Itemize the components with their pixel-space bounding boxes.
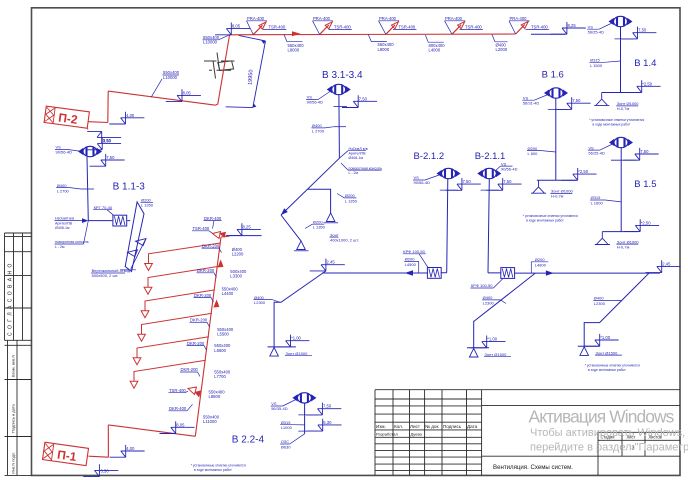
svg-text:Ø400: Ø400 xyxy=(594,296,605,301)
svg-text:В 1.6: В 1.6 xyxy=(542,70,564,81)
marker 8,05 main line xyxy=(215,23,250,35)
svg-text:Ø408-1м: Ø408-1м xyxy=(349,156,364,160)
label Ø400 L2300 (left) xyxy=(254,295,266,305)
svg-text:Ø315: Ø315 xyxy=(281,420,292,425)
marker 4,00 П-1 xyxy=(110,445,145,457)
svg-text:В 1.4: В 1.4 xyxy=(634,58,656,69)
note center xyxy=(523,214,578,223)
svg-text:L2300: L2300 xyxy=(254,300,266,305)
svg-text:Зонт Ø1500: Зонт Ø1500 xyxy=(596,350,619,355)
fan В-2.1.2 xyxy=(437,168,460,178)
wire: right chain xyxy=(584,273,649,346)
label 550x400 L10000 on П-2 run xyxy=(163,70,180,80)
svg-text:7,50: 7,50 xyxy=(323,404,332,409)
title block texts xyxy=(376,424,478,429)
label Ø200 L1350 xyxy=(141,198,154,208)
PRA branch 4 xyxy=(452,25,461,34)
svg-text:7,50: 7,50 xyxy=(106,155,115,160)
valve TSR-400 at П-1 riser bottom xyxy=(188,387,197,395)
svg-text:PRA-400: PRA-400 xyxy=(313,16,331,21)
wire П-2 horizontal run xyxy=(108,91,215,105)
hood branch 2 xyxy=(297,241,306,250)
svg-text:Ø315: Ø315 xyxy=(591,195,602,200)
svg-text:*1,00: *1,00 xyxy=(291,336,301,341)
svg-text:L4800: L4800 xyxy=(535,262,547,267)
svg-text:500x500, 2 шт.: 500x500, 2 шт. xyxy=(92,273,119,278)
fan В1.6 xyxy=(545,88,568,98)
wire П-1 outlet xyxy=(89,456,109,457)
svg-text:*1,00: *1,00 xyxy=(600,335,610,340)
svg-text:8,05: 8,05 xyxy=(232,24,241,29)
svg-text:Ø200: Ø200 xyxy=(528,146,539,151)
svg-text:Ø200: Ø200 xyxy=(405,257,416,262)
svg-text:L4400: L4400 xyxy=(222,291,234,296)
black break symbol on П-2 riser xyxy=(204,53,235,79)
duct size labels under main line xyxy=(203,35,508,52)
svg-text:56/25-4D: 56/25-4D xyxy=(588,150,605,155)
svg-text:TSR-400: TSR-400 xyxy=(169,388,186,393)
wire main supply line xyxy=(230,33,516,36)
svg-text:* установочные отметки уточняю: * установочные отметки уточняются xyxy=(191,464,246,468)
title block xyxy=(375,390,680,476)
fan В2.2-4 xyxy=(293,393,316,403)
label VS 90/56-4D xyxy=(56,145,73,155)
svg-text:Ø400: Ø400 xyxy=(57,183,68,188)
svg-text:НзОовЛ в/в: НзОовЛ в/в xyxy=(55,217,74,221)
svg-text:Инв.N подл.: Инв.N подл. xyxy=(11,452,16,474)
svg-text:Дата: Дата xyxy=(467,424,478,429)
svg-text:Ø400: Ø400 xyxy=(254,295,265,300)
svg-text:90/56-4D: 90/56-4D xyxy=(56,150,73,155)
wire: middle chain xyxy=(474,273,660,348)
svg-text:L 1600: L 1600 xyxy=(591,201,604,206)
hood зонт Ø1000 (В1.6) xyxy=(531,180,546,193)
svg-text:в ходе монтажных работ: в ходе монтажных работ xyxy=(588,368,626,372)
svg-text:Ø200: Ø200 xyxy=(313,219,324,224)
svg-text:L8000: L8000 xyxy=(378,47,390,52)
svg-text:L4000: L4000 xyxy=(429,47,441,52)
svg-text:Ø408-1м: Ø408-1м xyxy=(55,226,70,230)
frame: left column rotated texts xyxy=(8,263,14,336)
riser В1.1-3 xyxy=(87,157,88,221)
vertical duct (trapezoid) xyxy=(125,202,144,272)
svg-text:4,00: 4,00 xyxy=(126,113,135,118)
svg-text:3,50: 3,50 xyxy=(103,138,112,143)
label PRA-400 x5 xyxy=(247,16,527,21)
label Ø400 L2300 (middle) xyxy=(483,295,495,305)
svg-text:L 1350: L 1350 xyxy=(313,225,326,230)
fan В-2.1.1 xyxy=(478,168,501,178)
marker 3,50 П-1 xyxy=(83,464,118,476)
svg-text:КРГ 70-40: КРГ 70-40 xyxy=(94,205,113,210)
hood зонт Ø1000 (В1.5) xyxy=(595,232,610,245)
hood зонт Ø1500 (middle) xyxy=(469,348,478,357)
bottom В1.5 xyxy=(602,231,638,233)
svg-text:TSR-400: TSR-400 xyxy=(193,226,210,231)
svg-text:PRA-400: PRA-400 xyxy=(247,16,265,21)
svg-text:*1,00: *1,00 xyxy=(487,337,497,342)
svg-text:Вентиляция. Схемы систем.: Вентиляция. Схемы систем. xyxy=(493,464,573,471)
svg-text:DKR-200: DKR-200 xyxy=(202,243,220,248)
label Ø400 L2700 xyxy=(57,183,70,194)
svg-text:L8000: L8000 xyxy=(288,47,300,52)
label Ø400 L2300 (right) xyxy=(594,296,606,306)
svg-text:* установочные отметки уточняю: * установочные отметки уточняются xyxy=(585,363,640,367)
grille arrows xyxy=(128,239,147,269)
svg-text:L7700: L7700 xyxy=(214,374,226,379)
marker 8,25 П-1 top xyxy=(229,235,261,237)
note П-1 xyxy=(191,464,246,473)
svg-text:Дуева: Дуева xyxy=(411,432,423,437)
П-1 riser flow arrow 2 xyxy=(213,300,219,308)
svg-text:DKR-200: DKR-200 xyxy=(197,268,215,273)
fan В1.1-3 xyxy=(79,146,102,156)
svg-text:В 3.1-3.4: В 3.1-3.4 xyxy=(322,70,363,81)
svg-text:L 1350: L 1350 xyxy=(345,198,358,203)
svg-text:L 2700: L 2700 xyxy=(57,189,70,194)
fan В3.1-3.4 xyxy=(327,84,350,94)
svg-text:L - 2м: L - 2м xyxy=(55,245,65,249)
svg-text:90/56-4D: 90/56-4D xyxy=(501,166,518,171)
wire П-1 riser up xyxy=(107,425,109,457)
hood зонт Ø1000 (В1.4) xyxy=(594,93,609,106)
svg-text:НзОовЛ в/в: НзОовЛ в/в xyxy=(349,147,368,151)
svg-text:Изм.: Изм. xyxy=(376,424,386,429)
svg-text:В 1.5: В 1.5 xyxy=(634,179,656,190)
svg-text:в ходе монтажных работ: в ходе монтажных работ xyxy=(194,468,232,472)
svg-text:П-2: П-2 xyxy=(57,110,78,126)
svg-text:7,50: 7,50 xyxy=(463,179,472,184)
marker 8,05 П-1 run xyxy=(160,421,195,433)
svg-text:Чтобы активировать Windows,: Чтобы активировать Windows, xyxy=(530,427,685,439)
flow arrow right xyxy=(546,270,554,275)
label Ø200 L1350 (1) xyxy=(345,193,358,203)
leaders / underlines for PRA & TSR labels xyxy=(247,21,268,35)
bottom В1.6 xyxy=(537,179,576,181)
DKR-200 labels on П-1 riser xyxy=(181,243,220,372)
svg-text:2,45: 2,45 xyxy=(662,261,671,266)
svg-text:L8800: L8800 xyxy=(209,394,221,399)
marker 3,50 П-2 xyxy=(87,131,121,143)
svg-text:L1000: L1000 xyxy=(281,425,293,430)
svg-text:в ходе монтажных работ: в ходе монтажных работ xyxy=(526,219,564,223)
label Ø200 L4500 xyxy=(405,257,417,267)
svg-text:400x1000, 2 шт.: 400x1000, 2 шт. xyxy=(330,238,359,243)
wire П-2 outlet xyxy=(88,122,108,130)
svg-text:АрителПВ: АрителПВ xyxy=(349,152,367,156)
marker 3,50 xyxy=(86,138,121,150)
marker 4,00 П-2 xyxy=(109,112,144,124)
svg-text:TSR-400: TSR-400 xyxy=(399,25,416,30)
svg-text:DKR-200: DKR-200 xyxy=(194,293,212,298)
AHU П-2 box xyxy=(44,106,89,128)
svg-text:L 1350: L 1350 xyxy=(141,202,154,207)
svg-text:В 1.1-3: В 1.1-3 xyxy=(113,182,146,193)
riser В1.6 xyxy=(555,98,557,180)
PRA branch 5 xyxy=(516,25,525,34)
svg-text:КРФ 100-50: КРФ 100-50 xyxy=(403,249,425,254)
svg-text:DKR-200: DKR-200 xyxy=(190,318,208,323)
svg-text:90/56-4D: 90/56-4D xyxy=(307,100,324,105)
damper КРФ 100-50 (2) xyxy=(501,268,515,279)
riser В3.1-3.4 xyxy=(338,95,341,158)
label Ø200 L1350 (2) xyxy=(313,219,326,229)
svg-text:PRA-400: PRA-400 xyxy=(379,16,397,21)
wire П-1 horizontal run xyxy=(108,425,195,436)
damper КРФ 100-50 (1) xyxy=(427,268,441,279)
marker 8,05 П-2 run xyxy=(166,89,201,101)
svg-text:2,45: 2,45 xyxy=(327,260,336,265)
svg-text:Взам. инв.N: Взам. инв.N xyxy=(11,355,16,377)
svg-text:7,50: 7,50 xyxy=(572,98,581,103)
riser В-2.1.1 xyxy=(488,179,489,273)
svg-text:Н-0,7м: Н-0,7м xyxy=(551,194,564,199)
svg-text:Н-0,7м: Н-0,7м xyxy=(617,244,630,249)
DKR-400 / TSR-400 labels at П-1 top xyxy=(193,216,222,231)
label 550x400 L11000 on П-1 run xyxy=(203,414,220,424)
svg-text:С О Г Л А С О В А Н О: С О Г Л А С О В А Н О xyxy=(8,263,14,336)
svg-text:TSR-400: TSR-400 xyxy=(531,25,548,30)
label поворотная консоль xyxy=(55,240,89,249)
svg-text:L3300: L3300 xyxy=(230,273,242,278)
svg-text:8,05: 8,05 xyxy=(183,90,192,95)
svg-text:* установочные отметки уточняю: * установочные отметки уточняются xyxy=(523,214,578,218)
svg-text:L - 2м: L - 2м xyxy=(349,171,359,175)
svg-text:Лист: Лист xyxy=(410,424,421,429)
svg-text:КРФ 100-50: КРФ 100-50 xyxy=(471,283,493,288)
svg-text:56/25-4D: 56/25-4D xyxy=(588,29,605,34)
riser В-2.1.2 xyxy=(447,179,448,273)
svg-text:L 600: L 600 xyxy=(528,151,539,156)
svg-text:TSR-400: TSR-400 xyxy=(465,25,482,30)
svg-text:Ø200: Ø200 xyxy=(535,257,546,262)
svg-text:8,05: 8,05 xyxy=(176,422,185,427)
dimension 19950 (blue) xyxy=(226,35,266,107)
svg-text:L2000: L2000 xyxy=(496,47,508,52)
label ОЗС Ø630 xyxy=(281,439,292,449)
svg-text:DKR-200: DKR-200 xyxy=(187,341,205,346)
svg-text:Разработал: Разработал xyxy=(376,432,398,437)
bottom В1.4 xyxy=(602,92,640,94)
svg-text:TSR-400: TSR-400 xyxy=(334,25,351,30)
DKR-400 / TSR-400 labels at П-1 bottom xyxy=(169,388,187,411)
watermark: Активация Windows xyxy=(529,407,688,454)
svg-text:В 2.2-4: В 2.2-4 xyxy=(232,435,265,446)
svg-text:L 2700: L 2700 xyxy=(312,128,325,133)
svg-text:L2200: L2200 xyxy=(232,252,244,257)
svg-text:L4500: L4500 xyxy=(405,262,417,267)
svg-text:* установочные отметки уточняю: * установочные отметки уточняются xyxy=(589,118,644,122)
svg-text:19950: 19950 xyxy=(248,69,255,85)
hood branch 1 xyxy=(308,189,331,213)
svg-text:Зонт Ø1500: Зонт Ø1500 xyxy=(286,351,309,356)
wire П-2 riser up xyxy=(107,91,109,122)
svg-text:L2300: L2300 xyxy=(594,301,606,306)
svg-text:В-2.1.1: В-2.1.1 xyxy=(475,151,506,162)
svg-text:Ø400: Ø400 xyxy=(483,295,494,300)
svg-text:поворотная консоль: поворотная консоль xyxy=(349,166,383,170)
duct to damper xyxy=(88,220,130,222)
label воздуховод АрителПВ (В3) xyxy=(349,147,368,160)
svg-text:L 1500: L 1500 xyxy=(590,63,603,68)
fan В1.5 xyxy=(610,137,633,147)
svg-text:П-1: П-1 xyxy=(56,447,77,464)
svg-text:PRA-400: PRA-400 xyxy=(510,16,528,21)
svg-text:DKR-200: DKR-200 xyxy=(181,367,199,372)
valve TSR-400 at П-1 riser top xyxy=(213,232,230,239)
П-1 riser flow arrow 1 xyxy=(218,260,224,268)
svg-text:L6600: L6600 xyxy=(214,348,226,353)
svg-text:№ док: № док xyxy=(425,424,439,429)
svg-text:3,50: 3,50 xyxy=(101,468,110,473)
hood зонт Ø1500 (right) xyxy=(580,347,589,356)
П-1 riser size labels xyxy=(209,247,248,399)
svg-text:7,50: 7,50 xyxy=(638,28,647,33)
svg-text:Ø315: Ø315 xyxy=(590,58,601,63)
svg-text:7,50: 7,50 xyxy=(359,96,368,101)
note xyxy=(589,118,644,127)
svg-text:DKR-400: DKR-400 xyxy=(169,406,187,411)
svg-text:*2,50: *2,50 xyxy=(642,81,652,86)
svg-text:Подпись: Подпись xyxy=(443,424,462,429)
svg-text:4,00: 4,00 xyxy=(126,446,135,451)
PRA branch 3 xyxy=(386,25,395,34)
marker 2,45 (left) xyxy=(310,259,345,271)
riser В1.5 xyxy=(620,148,622,232)
hood зонт Ø1500 (left) xyxy=(270,348,279,357)
svg-text:в ходе монтажных работ: в ходе монтажных работ xyxy=(593,123,631,127)
svg-text:Кол.: Кол. xyxy=(394,424,403,429)
svg-text:*2,50: *2,50 xyxy=(578,169,588,174)
AHU П-1 box xyxy=(43,237,221,466)
svg-text:L10000: L10000 xyxy=(203,40,218,45)
diagonal to hoods xyxy=(281,158,339,241)
svg-text:8,25: 8,25 xyxy=(243,224,252,229)
П-1 riser branches with down arrows xyxy=(130,243,220,388)
wire П-1 main riser xyxy=(195,237,221,436)
svg-text:56/35-4D: 56/35-4D xyxy=(271,406,288,411)
svg-text:Ø400: Ø400 xyxy=(312,123,323,128)
svg-text:Активация Windows: Активация Windows xyxy=(529,407,675,427)
svg-text:90/56-4D: 90/56-4D xyxy=(414,180,431,185)
damper КРГ 70-40 xyxy=(113,215,127,226)
svg-text:8,25: 8,25 xyxy=(568,23,577,28)
flow arrow left xyxy=(405,270,413,275)
svg-text:PRA-400: PRA-400 xyxy=(445,16,463,21)
svg-text:АрителПВ: АрителПВ xyxy=(55,221,73,225)
svg-text:L2300: L2300 xyxy=(483,300,495,305)
svg-text:TSR-400: TSR-400 xyxy=(269,25,286,30)
svg-text:перейдите в раздел "Параметр: перейдите в раздел "Параметр xyxy=(530,442,688,454)
svg-text:Н-0,7м: Н-0,7м xyxy=(617,106,630,111)
wire П-2 main riser to top xyxy=(216,35,230,105)
svg-text:7,50: 7,50 xyxy=(503,179,512,184)
riser В1.4 xyxy=(620,27,622,93)
frame: left attachment column xyxy=(5,233,32,475)
label TSR-400 x5 xyxy=(269,25,549,30)
svg-text:Ø630: Ø630 xyxy=(281,444,292,449)
svg-text:Подпись и дата: Подпись и дата xyxy=(11,403,16,433)
marker 7,50 xyxy=(90,154,125,166)
svg-text:L5500: L5500 xyxy=(217,332,229,337)
flow arrow on main line xyxy=(292,31,301,36)
PRA branch 2 xyxy=(320,25,329,34)
label воздуховод АрителПВ xyxy=(55,217,74,230)
label поворотная консоль (В3) xyxy=(349,166,383,175)
svg-text:56/31-4D: 56/31-4D xyxy=(523,100,540,105)
label Вертикальный отвод xyxy=(92,268,131,278)
label Зонт 400x1000 xyxy=(330,232,359,242)
svg-text:Ø200: Ø200 xyxy=(345,193,356,198)
marker 8,25 end of main line xyxy=(531,33,565,35)
svg-text:L10000: L10000 xyxy=(163,75,178,80)
svg-text:Зонт Ø1500: Зонт Ø1500 xyxy=(485,352,508,357)
svg-text:В-2.1.2: В-2.1.2 xyxy=(414,151,445,162)
marker 2,45 (right) xyxy=(646,260,681,272)
riser В2.2-4 xyxy=(304,403,306,434)
svg-text:*2,50: *2,50 xyxy=(641,220,651,225)
svg-text:6,30: 6,30 xyxy=(323,420,332,425)
wire: left chain xyxy=(274,271,447,347)
svg-text:7,50: 7,50 xyxy=(640,149,649,154)
label Ø200 L4800 xyxy=(535,257,547,267)
svg-text:DKR-400: DKR-400 xyxy=(204,216,222,221)
PRA branch 1 xyxy=(253,25,262,34)
fan В1.4 xyxy=(609,16,632,26)
svg-text:L11000: L11000 xyxy=(203,419,217,424)
note bottom right xyxy=(585,363,640,372)
